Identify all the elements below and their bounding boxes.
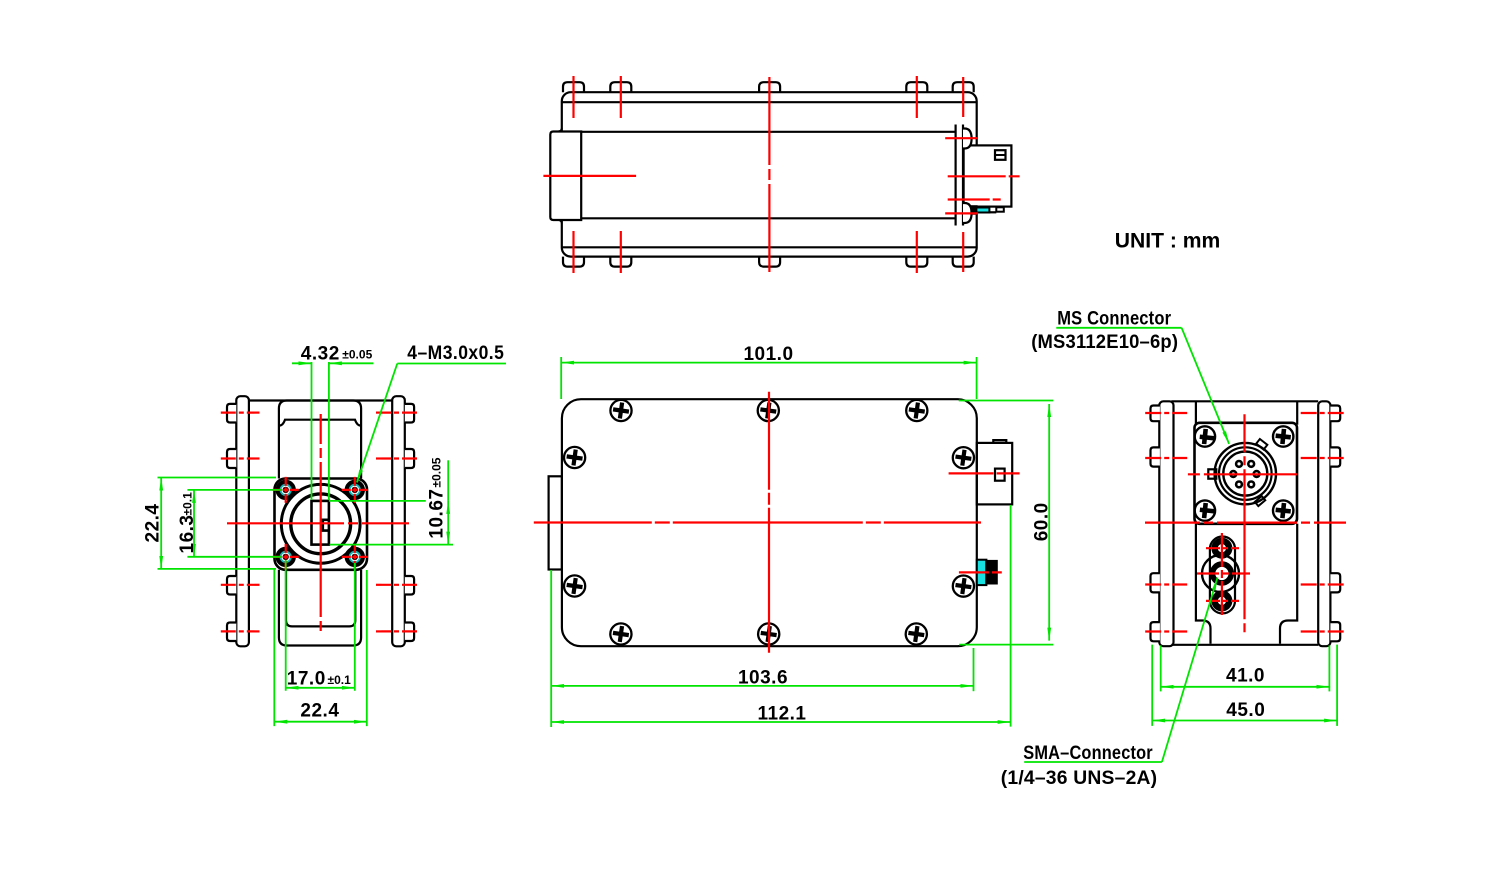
svg-text:(MS3112E10–6p): (MS3112E10–6p) [1031,331,1178,353]
svg-text:17.0: 17.0 [287,669,326,690]
svg-text:45.0: 45.0 [1226,700,1265,721]
svg-text:±0.05: ±0.05 [430,457,444,487]
svg-text:±0.1: ±0.1 [328,673,352,687]
svg-text:UNIT : mm: UNIT : mm [1115,229,1221,253]
svg-text:4.32: 4.32 [301,344,340,365]
svg-text:103.6: 103.6 [738,668,788,689]
svg-text:4–M3.0x0.5: 4–M3.0x0.5 [407,343,504,364]
svg-text:±0.1: ±0.1 [180,492,194,516]
svg-text:10.67: 10.67 [427,489,448,539]
svg-text:22.4: 22.4 [300,701,339,722]
svg-text:112.1: 112.1 [758,704,807,725]
svg-text:22.4: 22.4 [143,504,164,543]
svg-text:±0.05: ±0.05 [342,348,372,362]
svg-text:16.3: 16.3 [177,515,198,554]
svg-text:41.0: 41.0 [1226,666,1265,687]
svg-text:MS Connector: MS Connector [1057,308,1171,330]
svg-text:101.0: 101.0 [743,344,793,365]
svg-text:(1/4–36 UNS–2A): (1/4–36 UNS–2A) [1001,767,1158,789]
svg-text:60.0: 60.0 [1032,502,1053,541]
svg-text:SMA–Connector: SMA–Connector [1023,742,1153,764]
